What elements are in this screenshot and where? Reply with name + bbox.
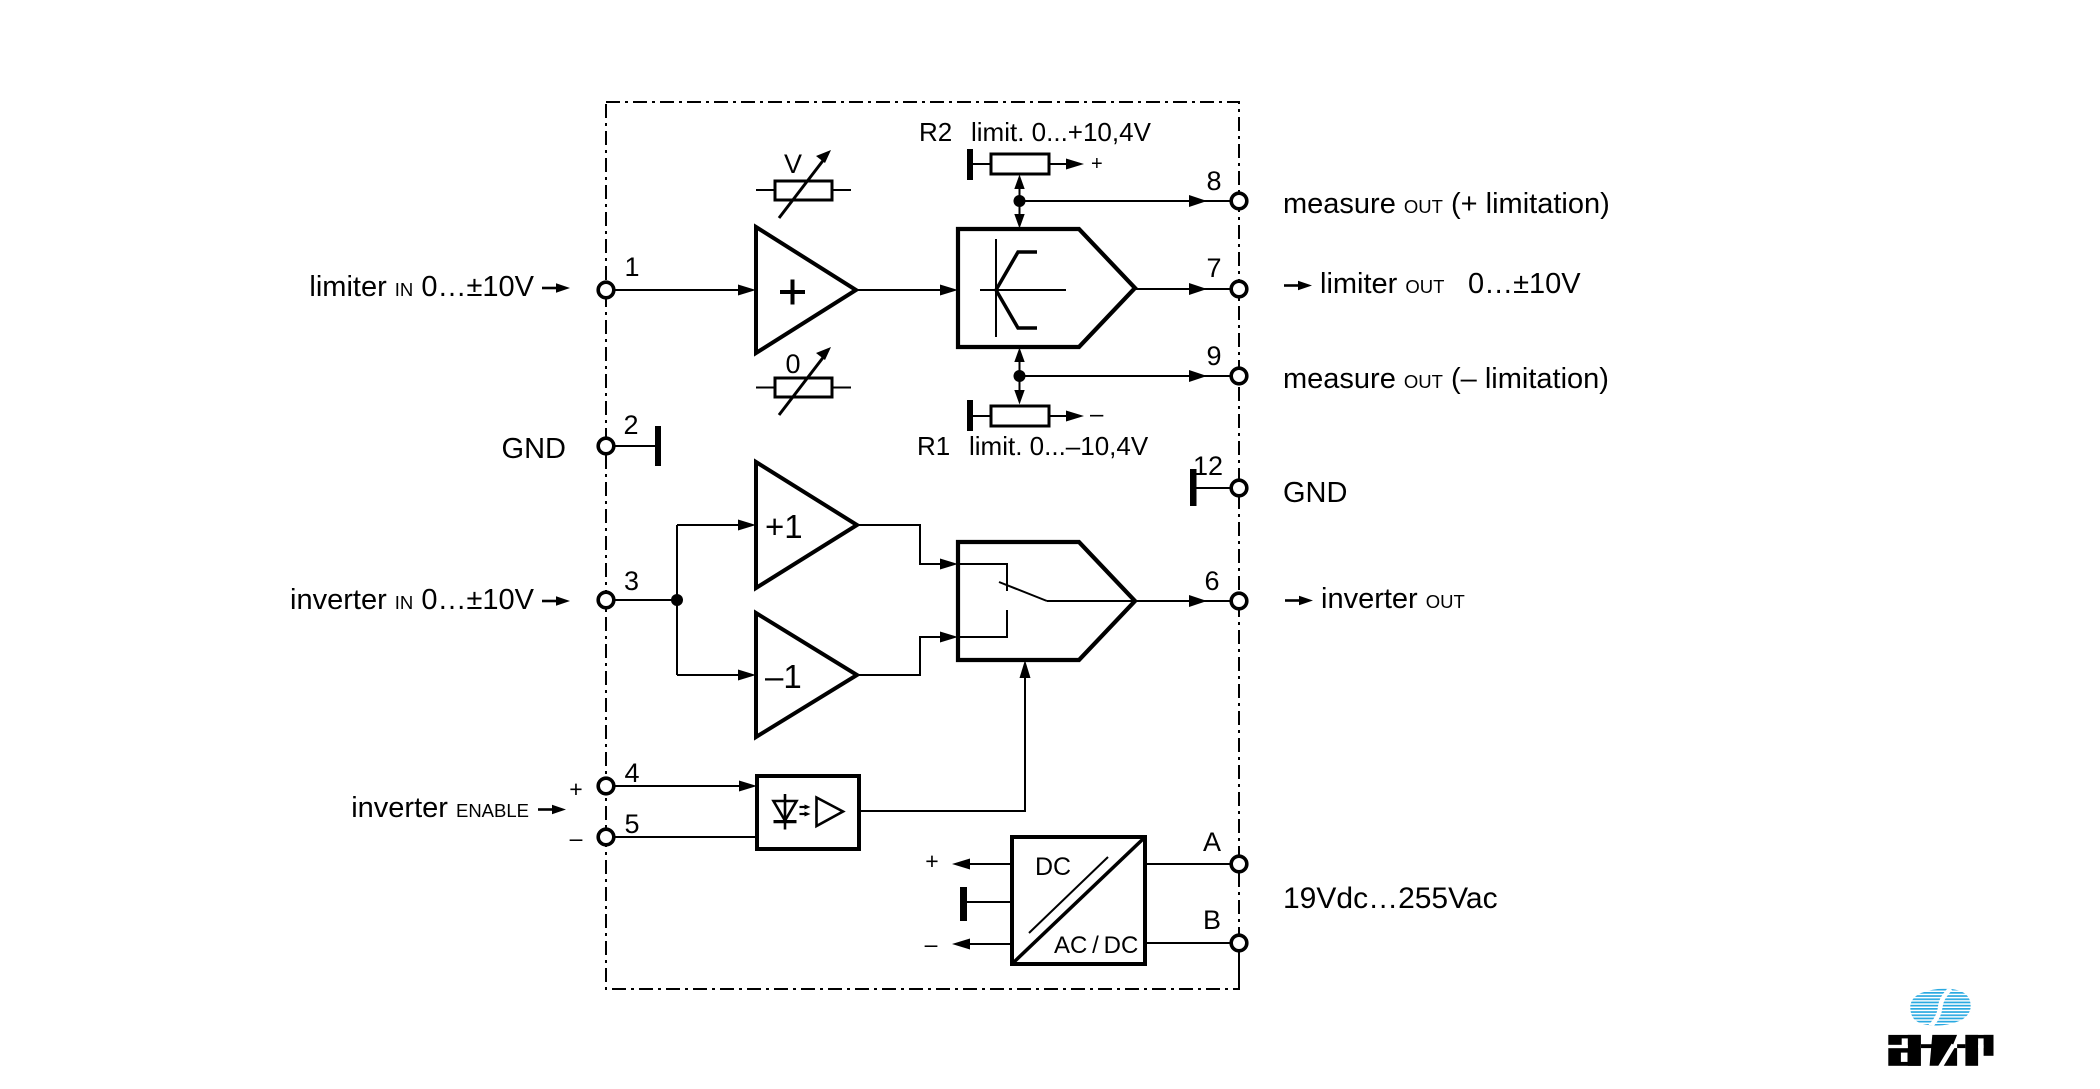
wire branch to -1 amplifier (677, 670, 756, 681)
ground bar at resistor R2 (967, 149, 991, 180)
svg-text:AC / DC: AC / DC (1054, 932, 1138, 959)
wire terminal 3 to junction (614, 599, 677, 601)
terminal B (1203, 905, 1247, 951)
svg-text:5: 5 (624, 809, 639, 839)
wire AC/DC to terminal B (1145, 942, 1231, 944)
wire switch block to terminal 6 (1135, 595, 1230, 607)
svg-text:–: – (1090, 401, 1104, 428)
terminal 6 (1204, 566, 1246, 609)
ground symbol at terminal 2 (614, 426, 661, 466)
limiter block U2 (958, 229, 1135, 347)
wire optocoupler to switch block (859, 660, 1031, 811)
svg-text:+: + (569, 776, 582, 802)
wire junction to terminal 9 (1020, 370, 1231, 382)
label: limiter OUT 0...±10V (1284, 284, 1299, 287)
wire junction to terminal 8 (1020, 195, 1231, 207)
terminal 9 (1206, 341, 1246, 384)
op-amp -1 inverter (756, 613, 857, 737)
svg-text:1: 1 (624, 252, 639, 282)
wire junction branch vertical (676, 525, 678, 675)
terminal 8 (1206, 166, 1246, 209)
node junction on terminal 9 wire (1014, 370, 1026, 382)
terminal 3 (598, 566, 639, 608)
svg-text:V: V (784, 149, 802, 179)
optocoupler U4 (757, 776, 859, 849)
svg-text:+: + (1091, 153, 1103, 175)
svg-text:A: A (1203, 827, 1221, 857)
ATR logo letters (1888, 1035, 1993, 1068)
wire terminal 1 to amplifier (614, 285, 756, 296)
svg-text:+: + (925, 848, 938, 874)
wire AC/DC to terminal A (1145, 863, 1231, 865)
wire from terminal B to bottom border corner (1238, 950, 1240, 989)
terminal 7 (1206, 253, 1246, 297)
svg-text:limiter IN 0…±10V: limiter IN 0…±10V (309, 271, 534, 303)
label: inverter OUT (1285, 599, 1300, 602)
svg-text:+1: +1 (765, 508, 803, 545)
module boundary (dash-dot frame) (606, 102, 1239, 989)
dc + output arrow (925, 848, 1012, 874)
resistor R1 (991, 401, 1104, 428)
svg-text:12: 12 (1193, 451, 1223, 481)
double arrow limiter block to R1 (1014, 348, 1024, 405)
dc - output arrow (925, 931, 1012, 957)
node junction at terminal 3 branch (671, 594, 683, 606)
terminal 12 (1193, 451, 1247, 496)
wire +1 amplifier to switch block (857, 525, 958, 570)
svg-text:9: 9 (1206, 341, 1221, 371)
svg-text:2: 2 (623, 410, 638, 440)
resistor R2 (991, 153, 1103, 175)
node junction on terminal 8 wire (1014, 195, 1026, 207)
potentiometer 0 (offset adjust) (756, 347, 851, 415)
svg-text:–1: –1 (765, 658, 802, 695)
wire terminal 5 to optocoupler (614, 836, 757, 838)
svg-text:4: 4 (624, 758, 639, 788)
svg-text:B: B (1203, 905, 1221, 935)
terminal 1 (598, 252, 639, 298)
svg-text:DC: DC (1035, 853, 1071, 881)
svg-text:6: 6 (1204, 566, 1219, 596)
terminal 2 (598, 410, 638, 454)
switch block U3 (958, 542, 1135, 660)
double arrow R2 to limiter block (1014, 175, 1024, 229)
svg-text:GND: GND (1283, 477, 1347, 509)
terminal A (1203, 827, 1247, 872)
wire limiter block to terminal 7 (1135, 283, 1230, 295)
wire branch to +1 amplifier (677, 520, 756, 531)
svg-text:8: 8 (1206, 166, 1221, 196)
op-amp +1 buffer (756, 462, 857, 588)
svg-text:measure OUT (+ limitation): measure OUT (+ limitation) (1283, 188, 1610, 220)
terminal 4 (569, 758, 639, 802)
AC/DC converter U5 (1012, 837, 1145, 964)
ATR logo emblem (1909, 987, 1972, 1027)
ground bar at AC/DC converter (960, 887, 1012, 921)
potentiometer V (gain adjust) (756, 149, 851, 218)
svg-text:7: 7 (1206, 253, 1221, 283)
svg-text:19Vdc…255Vac: 19Vdc…255Vac (1283, 882, 1498, 915)
svg-text:inverter IN 0…±10V: inverter IN 0…±10V (290, 584, 535, 616)
wire amplifier to limiter block (856, 285, 958, 296)
wire terminal 4 to optocoupler (614, 781, 757, 792)
wire -1 amplifier to switch block (857, 632, 958, 676)
terminal 5 (570, 809, 640, 851)
op-amp U1 (+ amplifier) (756, 227, 856, 353)
svg-text:measure OUT (– limitation): measure OUT (– limitation) (1283, 363, 1609, 395)
ground symbol at terminal 12 (1190, 469, 1231, 506)
svg-text:GND: GND (502, 433, 566, 465)
svg-text:–: – (925, 931, 938, 957)
ground bar at resistor R1 (967, 400, 991, 431)
svg-text:–: – (570, 825, 583, 851)
svg-text:3: 3 (624, 566, 639, 596)
svg-text:0: 0 (785, 349, 800, 379)
